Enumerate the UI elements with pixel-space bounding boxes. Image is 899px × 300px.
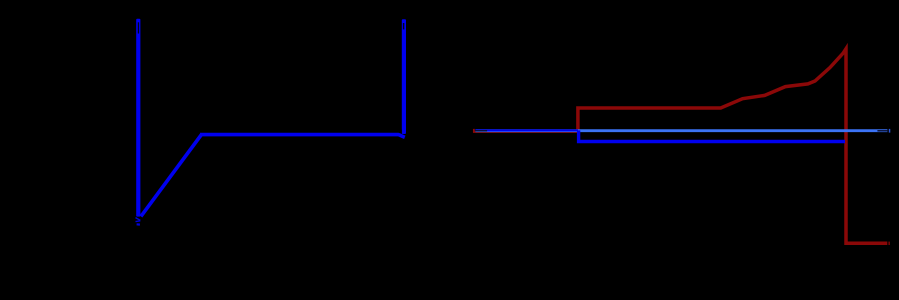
blue trace right: thin lead-in [475, 129, 578, 131]
blue trace left: bottom cusp upper tick [136, 218, 141, 221]
dark red trace right: main polyline [578, 49, 887, 244]
blue trace left: flat segment [200, 135, 405, 138]
blue trace left: bottom cusp dash [137, 223, 140, 226]
light blue reference line: end dash [889, 129, 891, 133]
light blue reference line: start dark core [475, 130, 487, 131]
blue trace left: rising diagonal [141, 135, 202, 217]
dark red trace right: end dash [889, 242, 890, 245]
dark red trace right: thin lead-in with start tick [474, 129, 577, 132]
blue trace left: spike 2 bottom notch [399, 130, 402, 133]
light blue reference line [476, 129, 888, 132]
blue trace right: step-down polyline [579, 130, 845, 141]
light blue reference line: end dark core [877, 130, 887, 131]
blue trace left: spike 2 dark core [403, 23, 404, 29]
blue trace left: spike 2 body [402, 19, 406, 134]
blue trace left: spike 1 body [136, 19, 140, 217]
blue trace left: spike 1 dark core [138, 22, 139, 33]
blue trace left: bottom cusp lower tick [136, 220, 141, 223]
